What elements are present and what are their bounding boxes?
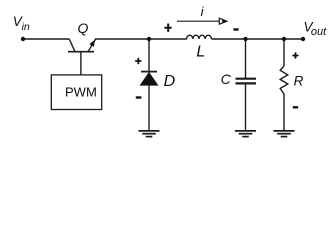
- resistor R zigzag: [280, 66, 288, 94]
- svg-text:in: in: [22, 21, 30, 33]
- wire resistor top lead: [283, 39, 285, 66]
- ground below diode: [139, 131, 160, 137]
- transistor Q base bar: [68, 51, 94, 53]
- inductor L winding: [187, 35, 212, 39]
- svg-text:C: C: [221, 71, 232, 87]
- transistor Q base lead to PWM: [80, 52, 82, 76]
- plus resistor: [292, 52, 298, 58]
- plus inductor left: [164, 24, 171, 32]
- wire resistor to ground: [283, 94, 285, 131]
- current arrow i open head: [219, 18, 227, 24]
- current arrow i shaft: [177, 20, 220, 22]
- ground below capacitor: [235, 131, 256, 137]
- transistor Q collector lead: [88, 39, 96, 52]
- wire diode to ground: [148, 85, 150, 130]
- wire capacitor to ground: [245, 84, 247, 130]
- transistor Q collector arrowhead: [89, 40, 95, 47]
- minus resistor: [293, 106, 298, 108]
- wire inductor to Vout: [211, 38, 303, 40]
- PWM block box: [51, 75, 101, 110]
- plus diode: [135, 58, 141, 64]
- wire diode anode drop: [148, 39, 150, 72]
- svg-text:L: L: [196, 44, 205, 61]
- node Vout terminal dot: [301, 37, 305, 41]
- minus diode: [136, 96, 142, 98]
- svg-text:R: R: [294, 73, 304, 88]
- ground below resistor: [274, 131, 295, 137]
- node Vin terminal dot: [21, 37, 25, 41]
- svg-text:PWM: PWM: [65, 85, 97, 100]
- svg-text:D: D: [164, 73, 176, 90]
- capacitor C bottom plate: [236, 82, 257, 84]
- current arrow i head tip fill: [222, 19, 227, 23]
- node resistor junction dot: [282, 37, 286, 41]
- svg-text:i: i: [201, 4, 205, 19]
- svg-text:out: out: [311, 26, 327, 38]
- node switch/diode junction dot: [147, 37, 151, 41]
- node capacitor junction dot: [243, 37, 247, 41]
- wire capacitor top lead: [245, 39, 247, 78]
- svg-text:Q: Q: [78, 20, 89, 36]
- transistor Q emitter lead: [69, 39, 75, 52]
- wire switch node to inductor: [95, 38, 187, 40]
- diode D cathode bar: [141, 71, 157, 73]
- minus inductor right: [234, 28, 239, 30]
- capacitor C top plate: [236, 78, 257, 80]
- diode D triangle: [140, 72, 159, 86]
- wire Vin to transistor emitter: [23, 38, 69, 40]
